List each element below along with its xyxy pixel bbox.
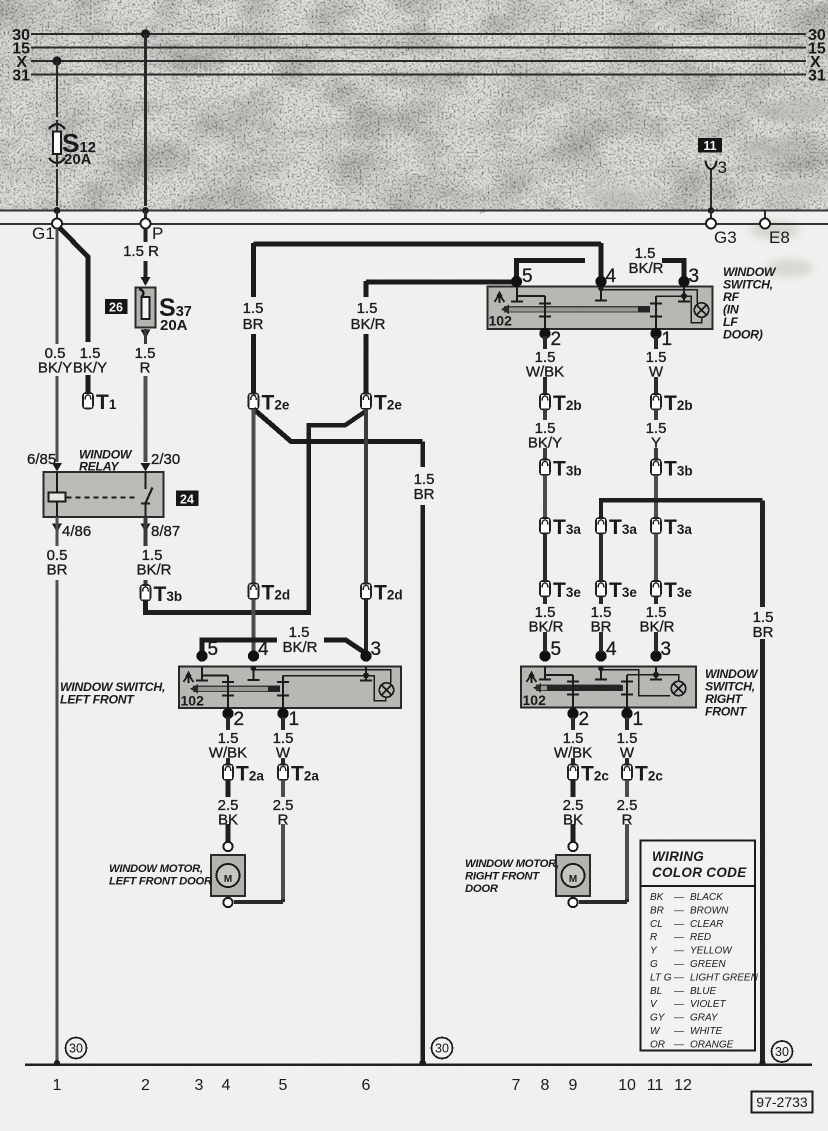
chain RF pin1: wire 1.5 W xyxy=(654,336,658,394)
wire BK/R vertical above T2e right xyxy=(364,281,369,394)
window motor RIGHT title xyxy=(465,858,559,895)
arrow out of fuse S37 xyxy=(141,330,151,339)
connector fork 3 xyxy=(706,161,717,170)
wire 0.5 BR relay to ground strip xyxy=(55,517,58,1063)
window relay box xyxy=(44,472,164,517)
arrows into relay xyxy=(52,463,62,472)
connector T2b right xyxy=(651,394,661,410)
wire 1.5 BR top horizontal to RF pin4 xyxy=(254,241,601,246)
window switch LF box xyxy=(179,666,401,710)
wire 1.5 BR to RIGHT pin4 xyxy=(599,597,603,653)
window switch RIGHT title xyxy=(705,667,759,719)
connector T3b right xyxy=(651,460,661,476)
wire 1.5 BK/Y xyxy=(543,410,547,461)
node on bus X xyxy=(53,57,62,66)
wire 30 down to P xyxy=(144,34,147,206)
component ref 26 box xyxy=(105,299,128,314)
RIGHT pin dots and numbers xyxy=(539,650,550,661)
label 1.5 BR center xyxy=(409,469,438,503)
illumination lamp xyxy=(671,681,685,695)
connector T2d right xyxy=(361,584,371,600)
pin1 contact column xyxy=(282,676,284,711)
pin3 contact xyxy=(365,667,367,680)
wire BK/R column T2e-T2d right xyxy=(364,409,368,584)
wire 1.5 R to relay 2/30 xyxy=(144,376,148,462)
switch slider bar xyxy=(504,307,648,312)
pin3 contact xyxy=(655,667,657,679)
connector T3e right xyxy=(651,581,661,597)
wire to T3a crossing ground link xyxy=(654,475,658,519)
label 0.5 BR xyxy=(42,546,72,579)
wire 1.5 BK/R to RIGHT pin5 xyxy=(543,597,547,653)
long wire 1.5 BR center drop xyxy=(420,442,425,1064)
pin1 contact column xyxy=(655,296,657,330)
label 1.5 BK/Y xyxy=(73,344,107,377)
LF jumper 1.5 BK/R pin5-pin3 xyxy=(202,640,277,653)
wire 1.5 BK/Y from G1 to T1 xyxy=(59,227,88,393)
connector T3e mid xyxy=(596,581,606,597)
fuse S12 20A xyxy=(50,120,97,168)
connector T2d left xyxy=(249,584,259,600)
wire X to fuse S12 xyxy=(56,61,58,206)
svg-text:3: 3 xyxy=(718,158,727,177)
svg-text:31: 31 xyxy=(12,68,30,85)
wire T2d right to LF pin3 xyxy=(364,599,368,652)
arrows out of relay xyxy=(52,524,62,533)
label 0.5 BK/Y xyxy=(36,344,74,377)
link pin1-pin3 and lamp hook xyxy=(283,676,386,701)
svg-text:31: 31 xyxy=(808,68,826,85)
connector T3a right xyxy=(651,518,661,534)
switch slider bar xyxy=(193,686,276,691)
pin5 contact xyxy=(544,667,546,679)
faint scratch curve in band xyxy=(480,170,668,213)
wire 2.5 BK xyxy=(571,780,576,842)
lamp supply line from pin4 xyxy=(601,670,670,696)
label 1.5 R xyxy=(130,345,161,377)
wire to T3e mid xyxy=(599,534,603,582)
node on bus 30 xyxy=(141,30,150,39)
LF motor chain pin2: 1.5 W/BK xyxy=(226,717,230,765)
band bottom line 1 xyxy=(0,210,828,212)
svg-text:20A: 20A xyxy=(64,151,92,168)
bus line 30 xyxy=(31,33,806,35)
wire BR column T2e-T2d left xyxy=(252,409,256,584)
connector T3a left xyxy=(540,518,550,534)
component ref 11 box xyxy=(698,138,722,153)
terminal 30 circle left xyxy=(66,1038,87,1059)
ground link horizontal to right BR drop xyxy=(601,498,763,502)
connector T2e left xyxy=(249,394,259,410)
wire 1.5 BK/R relay 8/87 down xyxy=(144,517,148,585)
wire fork to G3 xyxy=(710,170,712,211)
link pin1-pin3 and lamp hook xyxy=(656,296,702,323)
window switch RF title xyxy=(723,265,777,342)
wire 1.5 BK/R from T3b right and up to T2e right column xyxy=(146,411,367,613)
bus line 15 xyxy=(31,47,806,49)
window motor LF xyxy=(211,842,245,907)
illumination lamp xyxy=(379,683,393,697)
pin2 contact column xyxy=(544,296,546,330)
svg-text:11: 11 xyxy=(703,139,716,153)
wire 0.5 BK/Y from G1 to relay 6/85 xyxy=(55,229,58,463)
bus line 31 xyxy=(31,74,806,76)
chain RF pin2: wire 1.5 W/BK xyxy=(543,336,547,394)
arrow into fuse S37 xyxy=(141,277,151,286)
window motor LF title xyxy=(109,863,213,888)
scan smudges right edge xyxy=(580,100,826,277)
wire 2.5 R xyxy=(625,780,629,899)
wire 1.5 Y xyxy=(654,410,658,461)
terminal 30 circle center xyxy=(432,1038,453,1059)
pin5 contact xyxy=(516,287,518,301)
RF jumper 1.5 BK/R pin5-pin3 xyxy=(517,260,586,281)
switch slider bar xyxy=(536,685,621,690)
connector T1 xyxy=(83,393,93,409)
wire to G1 xyxy=(56,211,58,220)
terminal G3 xyxy=(706,219,716,229)
pin4 contact xyxy=(253,667,255,680)
RF pin dots and numbers xyxy=(511,276,522,287)
bus labels left xyxy=(12,27,30,85)
ground strip 30 xyxy=(25,1064,812,1066)
LF pin dots and numbers xyxy=(196,650,207,661)
pin4 contact xyxy=(600,287,602,300)
lamp supply line from pin4 xyxy=(601,290,697,304)
up arrow symbol xyxy=(527,675,537,684)
pin2 contact column xyxy=(227,676,229,711)
up arrow symbol xyxy=(184,675,194,684)
label 1.5 R xyxy=(122,243,160,260)
label 1.5 BK/R xyxy=(350,298,387,333)
terminal 30 circle right xyxy=(772,1041,793,1062)
pin5 contact xyxy=(201,667,203,680)
LF motor chain pin1: 1.5 W xyxy=(281,717,285,765)
RIGHT motor chain pin1: 1.5 W xyxy=(625,717,629,765)
wire R to motor lower terminal xyxy=(579,899,627,902)
node on line1 at G1 column xyxy=(54,207,61,214)
shaded scan band at top xyxy=(0,0,828,211)
wire to T3e xyxy=(543,534,547,582)
label 1.5 BK/R xyxy=(131,546,172,579)
connector T3a mid xyxy=(596,518,606,534)
terminal E8 xyxy=(760,219,770,229)
wire end nubs xyxy=(54,1060,60,1066)
RIGHT motor chain pin2: 1.5 W/BK xyxy=(571,717,575,765)
pin2 contact column xyxy=(572,675,574,710)
terminal P xyxy=(141,219,151,229)
component ref 24 box xyxy=(176,491,199,507)
window switch RIGHT box xyxy=(521,666,696,710)
connector T2a left xyxy=(223,765,233,781)
wire 1.5 BK/R horizontal to RF pin5 xyxy=(366,279,513,284)
window motor RIGHT xyxy=(556,842,590,907)
pin1 contact column xyxy=(626,675,628,710)
diagram number box 97-2733 xyxy=(752,1092,813,1113)
wire BR diagonal T2e left to long ground drop xyxy=(254,409,423,442)
wire T2d left to LF pin4 xyxy=(252,599,256,652)
bus labels right xyxy=(808,27,826,85)
connector T3b (relay chain) xyxy=(141,585,151,601)
wire to T3e xyxy=(654,534,658,582)
wire to T3a xyxy=(543,475,547,519)
right wire 1.5 BR drop to ground strip xyxy=(760,500,765,1063)
window switch RF box xyxy=(488,286,713,330)
wire to E8 xyxy=(711,211,765,220)
link pin1-pin3 and lamp top xyxy=(627,675,679,681)
window switch LF title xyxy=(60,680,165,707)
connector T2a right xyxy=(278,765,288,781)
pin4 contact xyxy=(600,667,602,679)
terminal G1 xyxy=(52,219,62,229)
band bottom line 2 xyxy=(0,223,828,225)
wire BR vertical above T2e left xyxy=(251,243,256,394)
mid chain corner down xyxy=(599,498,603,519)
label 1.5 BR xyxy=(239,298,269,333)
connector T2c left xyxy=(568,765,578,781)
up arrow symbol xyxy=(495,295,505,304)
illumination lamp xyxy=(694,303,708,317)
wire 2.5 R xyxy=(281,780,285,899)
wire 2.5 BK xyxy=(226,780,231,842)
pin3 contact xyxy=(683,287,685,301)
bus line X xyxy=(31,60,806,62)
connector T2c right xyxy=(622,765,632,781)
lamp supply line from pin4 xyxy=(254,670,391,684)
track numbers xyxy=(53,1077,692,1094)
connector T3e left xyxy=(540,581,550,597)
wire R to motor lower terminal xyxy=(234,899,283,902)
connector T3b left xyxy=(540,460,550,476)
connector T2e right xyxy=(361,394,371,410)
wiring color code legend xyxy=(641,841,759,1051)
connector T2b left xyxy=(540,394,550,410)
wire 1.5 R from P xyxy=(144,229,148,278)
label 1.5 BR right xyxy=(748,608,778,641)
wire 1.5 BK/R to RIGHT pin3 xyxy=(654,597,658,653)
fuse S37 20A xyxy=(136,288,192,335)
